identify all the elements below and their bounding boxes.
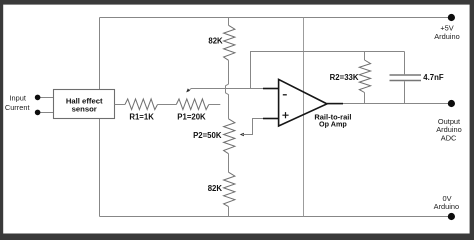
node label 0V Arduino: [434, 194, 459, 211]
wire P2 wiper to op-amp non-inverting input: [242, 119, 263, 135]
svg-text:R2=33K: R2=33K: [330, 73, 359, 82]
wire 82K lower to 0V rail: [228, 207, 230, 217]
svg-text:ADC: ADC: [441, 133, 457, 142]
svg-text:Arduino: Arduino: [434, 32, 459, 41]
svg-text:P2=50K: P2=50K: [193, 131, 222, 140]
wire P1 unused end stub: [209, 104, 221, 106]
wire left supply column lower: [99, 119, 101, 217]
wire input terminal stub upper: [38, 97, 54, 99]
node output terminal dot: [448, 100, 455, 107]
svg-text:sensor: sensor: [72, 105, 97, 114]
wire feedback from inverting node up and across: [251, 52, 405, 89]
input terminal dot upper: [35, 95, 41, 101]
wire R1 to P1: [158, 104, 177, 106]
wire op-amp output to ADC terminal: [340, 103, 451, 105]
wire left supply column upper: [99, 18, 101, 90]
node 0V terminal dot: [448, 213, 455, 220]
wire R2 top lead: [364, 52, 366, 61]
wire P2 to 82K lower: [228, 154, 230, 173]
wire +5V top rail: [100, 17, 452, 19]
resistor 82K upper: [224, 25, 235, 60]
svg-text:Arduino: Arduino: [434, 202, 459, 211]
node label +5V Arduino: [434, 23, 459, 41]
wire op-amp supply line: [303, 18, 305, 217]
part label Rail-to-rail Op Amp: [314, 112, 351, 128]
node label Input Current: [5, 93, 30, 112]
svg-text:4.7nF: 4.7nF: [423, 73, 444, 82]
op-amp U2 rail-to-rail: [263, 79, 343, 126]
capacitor C1 4.7nF: [390, 52, 422, 104]
svg-text:Op Amp: Op Amp: [319, 119, 347, 128]
potentiometer P2: [224, 119, 244, 154]
wire P1 wiper to divider node: [189, 89, 229, 91]
input terminal dot lower: [35, 110, 41, 116]
wire 0V bottom rail: [100, 216, 452, 218]
resistor R2: [359, 60, 370, 93]
wire divider node to op-amp inverting input: [229, 88, 264, 90]
node label Output Arduino ADC: [436, 117, 461, 142]
svg-text:+5V: +5V: [440, 23, 453, 32]
wire 82K upper to divider node to P2: [226, 60, 229, 119]
potentiometer P1: [176, 88, 209, 109]
wire input terminal stub lower: [38, 112, 54, 114]
resistor R1: [125, 99, 158, 110]
svg-text:Current: Current: [5, 103, 30, 112]
wire R2 bottom lead to output line: [364, 93, 366, 104]
wire top rail to 82K upper: [228, 18, 230, 26]
hall effect sensor U1: [54, 90, 115, 119]
svg-text:82K: 82K: [208, 184, 223, 193]
svg-text:P1=20K: P1=20K: [177, 112, 206, 121]
svg-text:82K: 82K: [208, 36, 223, 45]
node +5V terminal dot: [448, 14, 455, 21]
wire sensor output to R1: [115, 104, 126, 106]
svg-text:Input: Input: [9, 93, 25, 102]
svg-text:R1=1K: R1=1K: [129, 112, 154, 121]
resistor 82K lower: [224, 172, 235, 206]
